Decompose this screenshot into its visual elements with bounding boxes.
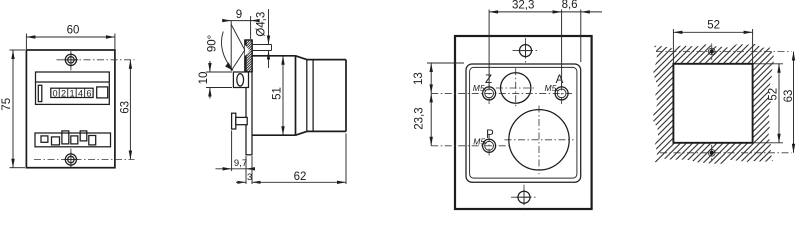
dim 9 arrows [222, 19, 259, 22]
dim 13 extension top [427, 62, 464, 64]
dim 75 arrows [11, 50, 14, 168]
dim 63 right line [793, 52, 795, 153]
reset button housing (side) [233, 72, 248, 88]
front body outline [26, 50, 115, 168]
svg-text:10: 10 [198, 72, 210, 85]
port P vertical centerline [488, 135, 490, 158]
dim 9,7 arrows [223, 167, 255, 170]
dim dia 4,3 leader [268, 9, 270, 68]
dim 32,3 arrows [489, 10, 561, 13]
dim 60 line [26, 36, 115, 38]
bottom hole centerline vertical [711, 145, 713, 162]
dim 3 extension [251, 156, 253, 184]
display bezel [36, 72, 110, 104]
button 3 [62, 131, 69, 144]
screw top (front) [64, 52, 79, 67]
svg-text:M5: M5 [545, 83, 557, 93]
dim 52 right line [778, 64, 780, 143]
side body outline [252, 56, 296, 135]
dim 10 arrows and line [209, 61, 211, 99]
dim 52 top arrows [673, 31, 752, 34]
display right button [97, 87, 108, 98]
bottom hole centerline horizontal [660, 152, 792, 154]
bottom hole [708, 149, 715, 156]
svg-text:90°: 90° [207, 35, 219, 52]
port P circles [483, 139, 496, 152]
button 4 [71, 136, 78, 144]
dim 52 right extension lines [755, 64, 784, 143]
dim 75 extension lines [10, 50, 26, 168]
button panel [35, 133, 111, 147]
dim 75 line [12, 50, 14, 168]
svg-text:13: 13 [413, 72, 425, 85]
countersink cone upper line [231, 25, 245, 51]
svg-text:9,7: 9,7 [234, 158, 247, 169]
svg-text:4: 4 [78, 88, 83, 98]
button 1 [41, 136, 48, 142]
dim 60 extension lines [26, 34, 115, 50]
svg-text:52: 52 [707, 20, 720, 32]
dim 51 line [282, 56, 284, 135]
svg-text:A: A [556, 74, 564, 86]
bottom screw circle [518, 191, 530, 203]
bottom screw centerline horizontal [34, 159, 135, 161]
plunger shaft [236, 117, 247, 124]
counter digits 02146 [53, 88, 92, 98]
dim 63 arrows (view1) [129, 60, 132, 160]
body taper bottom [296, 131, 307, 135]
dim 63 right arrows [792, 52, 795, 153]
dim 52 top extension lines [673, 29, 752, 63]
dim 62 extension right [345, 134, 347, 185]
leader M5-P [484, 142, 486, 143]
bezel inner rounded rect [470, 67, 577, 178]
svg-text:2: 2 [61, 88, 66, 98]
port P horizontal centerline [431, 145, 512, 147]
dim 9,7 extension lines [232, 131, 246, 185]
screw bottom (front) [64, 152, 79, 167]
dim 62 line [252, 181, 346, 183]
top hole centerline vertical [711, 44, 713, 61]
dim 13/23,3 line [430, 63, 432, 146]
large hole circle [509, 110, 569, 170]
large hole centerlines [505, 106, 574, 175]
digit separators [59, 88, 84, 97]
svg-text:63: 63 [783, 90, 795, 103]
dim 10 extension lines [206, 72, 232, 88]
top screw circle [520, 45, 532, 57]
dim 63 line (view1) [129, 60, 131, 160]
dim 62 arrows [337, 181, 346, 184]
dim 52 top line [673, 31, 752, 33]
cut-out square [673, 64, 752, 143]
dim 51 arrows [281, 56, 284, 135]
svg-text:9: 9 [236, 9, 242, 21]
svg-text:8,6: 8,6 [562, 0, 578, 11]
dim 9 extension right [250, 16, 252, 39]
svg-text:M5: M5 [473, 83, 485, 93]
digit window [51, 88, 93, 97]
port Z circles [483, 87, 496, 100]
button 2 [52, 137, 60, 145]
plunger cap [232, 113, 236, 129]
dim 8,6 arrow and tail [581, 10, 590, 13]
svg-text:62: 62 [294, 171, 307, 183]
svg-text:Ø4,3: Ø4,3 [256, 12, 268, 37]
svg-text:51: 51 [272, 87, 284, 100]
port A vertical centerline [561, 84, 563, 106]
svg-text:60: 60 [67, 25, 80, 37]
countersink cone lower line [231, 50, 245, 71]
bottom screw centerlines [511, 185, 537, 209]
body taper top [296, 56, 307, 60]
button 5 [80, 131, 87, 141]
dim 23,3 arrows [430, 93, 433, 145]
dim 52 right arrows [777, 64, 780, 143]
lug front face [230, 21, 232, 71]
svg-text:1: 1 [69, 88, 74, 98]
top screw centerlines [513, 38, 539, 63]
dim 3 left tail [236, 181, 246, 183]
dim 9,7 line [216, 168, 255, 170]
port A circles [555, 87, 568, 100]
bezel plate (side) [246, 40, 252, 155]
dim 3 arrows [237, 181, 260, 184]
panel hatching [653, 44, 774, 164]
svg-text:63: 63 [119, 101, 131, 114]
dim 9 line [223, 20, 259, 22]
leader M5-A [555, 89, 557, 91]
button 6 [89, 136, 96, 145]
dim 32,3 line [489, 11, 581, 13]
svg-text:6: 6 [86, 88, 91, 98]
Z-A horizontal centerline [431, 92, 572, 94]
90 degree arc arrowhead [225, 62, 234, 71]
dim 13 arrows [430, 63, 433, 93]
flange outline [455, 36, 592, 209]
svg-text:75: 75 [1, 98, 13, 111]
display left bar [38, 85, 42, 101]
cylinder outline [307, 60, 346, 132]
top hole [708, 48, 715, 55]
svg-text:0: 0 [53, 88, 58, 98]
dim dia 4,3 arrows [267, 36, 270, 60]
dim 32,3 extension lines [489, 10, 581, 87]
svg-text:M5: M5 [473, 136, 485, 146]
ring line 2 [312, 60, 314, 132]
svg-text:52: 52 [767, 88, 779, 101]
svg-text:Z: Z [485, 74, 492, 86]
port Z vertical centerline [488, 84, 490, 106]
svg-text:P: P [486, 129, 494, 141]
top screw centerline horizontal [57, 59, 135, 61]
svg-text:32,3: 32,3 [512, 0, 534, 12]
mounting lug hatched section [245, 40, 252, 72]
bezel outer rounded rect [466, 64, 581, 182]
90 degree arc [221, 32, 233, 71]
dim 60 arrows [26, 35, 115, 38]
ring line 1 [306, 60, 308, 132]
top hole centerline horizontal [656, 51, 792, 53]
bottom screw centerline vertical [70, 149, 72, 168]
top screw centerline vertical [70, 51, 72, 71]
svg-text:23,3: 23,3 [414, 107, 426, 129]
svg-text:3: 3 [247, 172, 252, 183]
screw hole lines [252, 45, 272, 51]
leader M5-Z [484, 89, 486, 91]
reset button knob ellipse [237, 74, 244, 86]
counter shaft circle centerlines [496, 68, 536, 108]
counter shaft circle [501, 73, 531, 103]
